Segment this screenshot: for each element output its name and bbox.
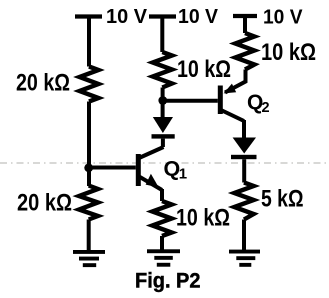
resistor R1 20k top-left [80, 67, 99, 102]
ground middle [147, 249, 180, 266]
diode D1 [152, 117, 175, 139]
svg-text:20 kΩ: 20 kΩ [17, 190, 72, 217]
wire [160, 236, 164, 250]
wire [160, 189, 164, 201]
label 10 kOhm R3 [177, 56, 231, 83]
label 10 V left [106, 5, 147, 28]
wire base of Q2 [163, 99, 218, 103]
fold line (faint dash-dot across page) [0, 162, 329, 164]
wire [87, 102, 91, 187]
svg-text:2: 2 [262, 100, 270, 116]
resistor R4 10k emitter Q1 [152, 201, 171, 236]
resistor R6 5k [234, 183, 253, 220]
node A (divider junction dot) [84, 163, 93, 172]
svg-text:10 V: 10 V [263, 6, 303, 29]
label Q1 [164, 156, 188, 182]
svg-text:10 kΩ: 10 kΩ [261, 39, 316, 66]
power rail +10V left [75, 14, 102, 18]
wire [242, 159, 246, 182]
transistor Q2 body [218, 86, 244, 122]
wire [161, 139, 165, 147]
svg-text:10 V: 10 V [106, 5, 147, 28]
power rail +10V middle [149, 14, 176, 18]
node B (junction dot to Q2 base) [158, 96, 167, 105]
ground left [73, 250, 105, 267]
caption Fig. P2 [135, 270, 201, 293]
svg-text:1: 1 [179, 165, 187, 182]
diode D2 [231, 138, 257, 160]
label 10 kOhm R5 [261, 39, 316, 66]
wire base of Q1 [89, 166, 136, 170]
wire [243, 16, 247, 33]
wire [242, 220, 246, 251]
label Q2 [247, 91, 270, 116]
svg-text:10 V: 10 V [178, 5, 218, 28]
resistor R3 10k middle [153, 52, 172, 88]
resistor R5 10k top-right [235, 33, 254, 70]
label 10 V right [263, 6, 303, 29]
ground right [229, 250, 260, 267]
svg-text:5 kΩ: 5 kΩ [261, 185, 304, 212]
svg-text:Q: Q [164, 156, 181, 180]
wire [161, 88, 165, 118]
power rail +10V right [233, 14, 257, 18]
wire [87, 220, 91, 252]
resistor R2 20k bottom-left [79, 186, 98, 220]
label 10 V middle [178, 5, 218, 28]
transistor Q2 (pnp) emitter wire [224, 70, 246, 94]
label 10 kOhm R4 [176, 205, 230, 232]
wire [160, 17, 164, 53]
label 20 kOhm R1 [16, 70, 70, 97]
wire [242, 120, 246, 138]
svg-text:20 kΩ: 20 kΩ [16, 70, 70, 97]
label 20 kOhm R2 [17, 190, 72, 217]
wire [87, 17, 91, 67]
svg-text:Fig. P2: Fig. P2 [135, 270, 201, 293]
transistor Q1 (npn) [136, 147, 164, 190]
label 5 kOhm R6 [261, 185, 304, 212]
svg-text:10 kΩ: 10 kΩ [177, 56, 231, 83]
svg-text:10 kΩ: 10 kΩ [176, 205, 230, 232]
